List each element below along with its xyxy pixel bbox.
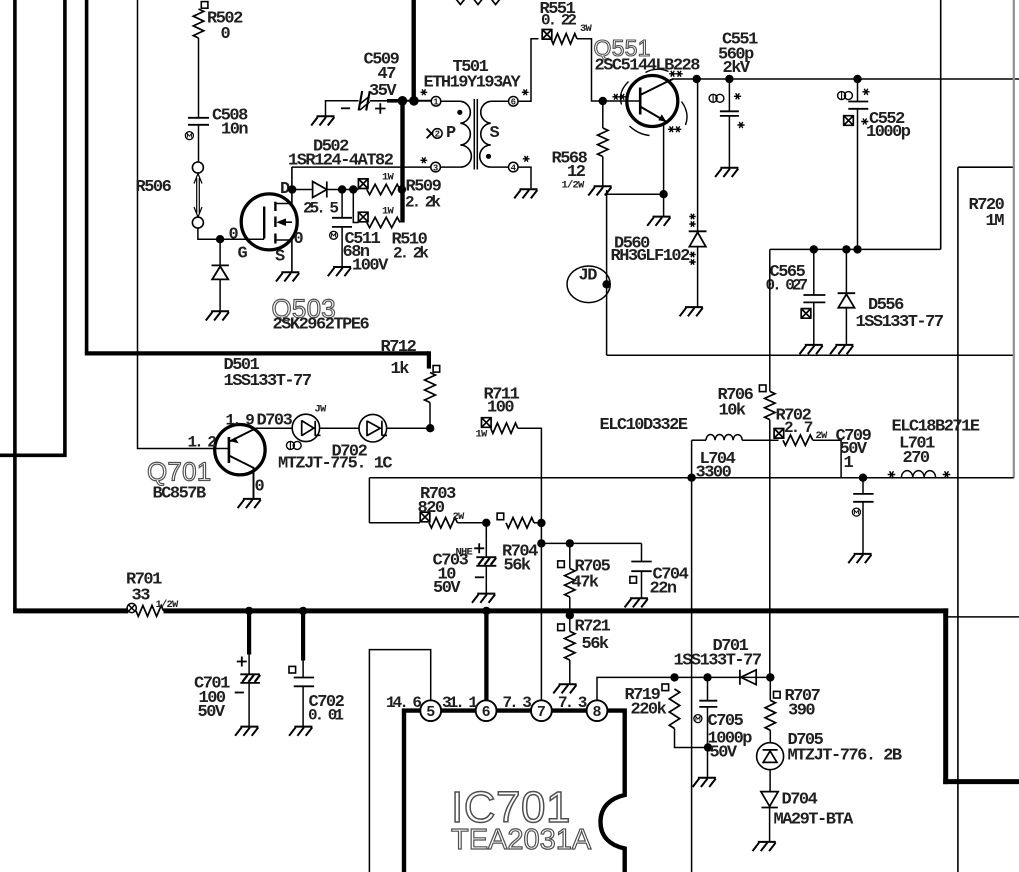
wire pin8 up (597, 677, 675, 700)
diode D560 branch (697, 79, 699, 231)
svg-text:7: 7 (537, 704, 546, 721)
resistor R551 fusible mark (542, 30, 552, 40)
wire pin6 thick drop (484, 611, 488, 700)
resistor R703 (429, 518, 457, 528)
svg-text:10n: 10n (221, 121, 248, 140)
ground D556 (830, 345, 853, 354)
svg-text:0. 027: 0. 027 (766, 277, 808, 295)
svg-text:100: 100 (487, 399, 514, 418)
polarity mark C511 (330, 231, 338, 239)
transistor Q551 body circle (627, 76, 678, 127)
IC701 pin 8 (587, 700, 608, 721)
svg-text:0: 0 (294, 230, 304, 249)
resistor R702 fusible mark (774, 429, 784, 439)
wire T501 pin4 to ground (518, 167, 531, 188)
svg-text:R506: R506 (136, 178, 172, 197)
svg-text:50V: 50V (198, 703, 226, 722)
loop JD (567, 266, 610, 303)
svg-text:3300: 3300 (696, 464, 732, 483)
wire rail upper (thick) (85, 351, 429, 355)
wire C509 positive (thick) to T501 pin1 (370, 100, 387, 102)
transformer T501 pin 2 (427, 129, 436, 139)
capacitor C702 (301, 611, 305, 661)
svg-text:D703: D703 (257, 412, 293, 431)
wire emitter node to R568 ground node (605, 193, 664, 195)
svg-text:5: 5 (426, 704, 435, 721)
IC701 pin 5 (420, 700, 441, 721)
svg-text:MA29T-BTA: MA29T-BTA (774, 811, 855, 830)
ground gate diode (206, 311, 229, 320)
svg-text:33: 33 (132, 587, 151, 606)
resistor R701 mark (127, 603, 136, 612)
wire D701 row (675, 676, 771, 678)
wire Q551 emitter down (663, 123, 665, 217)
svg-text:0: 0 (221, 25, 231, 44)
svg-text:MTZJT-775. 1C: MTZJT-775. 1C (278, 455, 392, 474)
svg-text:1. 9: 1. 9 (226, 412, 255, 430)
terminal square R706 (759, 385, 766, 392)
transistor Q551 emitter (640, 107, 666, 122)
wire snubber row horizontal (770, 248, 941, 250)
svg-text:50V: 50V (710, 744, 738, 763)
ground D560 (680, 307, 703, 316)
node L704/feedback (687, 474, 695, 482)
transformer T501 pin 6 (509, 97, 519, 107)
svg-text:35V: 35V (369, 82, 397, 101)
diode D701 (740, 670, 756, 685)
resistor R706 (765, 391, 775, 419)
resistor R711 (491, 423, 518, 433)
svg-text:0: 0 (229, 226, 239, 245)
svg-text:1. 2: 1. 2 (188, 434, 217, 452)
svg-text:ETH19Y193AY: ETH19Y193AY (424, 74, 522, 93)
terminal square R704 (497, 513, 504, 520)
svg-text:6: 6 (511, 98, 516, 108)
resistor R510 (367, 217, 400, 227)
transformer T501 primary winding (440, 101, 460, 167)
transistor Q503 body circle (241, 194, 297, 250)
transistor Q503 drain lead (275, 167, 292, 204)
wire left bus 2 (thick vertical with corner to left edge) (0, 0, 65, 455)
resistor R502 (193, 9, 203, 38)
resistor R551 (551, 34, 577, 44)
svg-text:0: 0 (255, 478, 265, 497)
svg-text:R721: R721 (575, 618, 611, 637)
resistor R502 top terminal (open square) (201, 2, 208, 9)
svg-text:56k: 56k (504, 557, 531, 576)
svg-text:56k: 56k (582, 635, 609, 654)
IC701 pin 7 (531, 700, 552, 721)
node R705/R721 (566, 611, 574, 619)
transistor Q503 gate bar (263, 207, 265, 239)
svg-text:2. 7: 2. 7 (784, 419, 813, 437)
transistor Q701 base bar (228, 437, 231, 463)
node R705 top (566, 539, 574, 547)
transistor Q503 source lead (275, 240, 292, 272)
terminal square R712 (433, 366, 440, 373)
svg-text:390: 390 (788, 702, 815, 721)
node R703/C703/R704 (482, 519, 490, 527)
svg-text:1: 1 (844, 454, 854, 473)
svg-text:1W: 1W (382, 172, 395, 184)
capacitor C703 (electrolytic) (485, 523, 487, 557)
svg-text:1M: 1M (986, 212, 1005, 231)
wire from top edge right (940, 0, 942, 249)
transformer T501 core (473, 99, 475, 170)
resistor R510 fusible mark (358, 212, 368, 222)
svg-text:10k: 10k (719, 402, 746, 421)
wire R702 to C709 node (813, 440, 841, 478)
svg-text:2: 2 (435, 130, 440, 140)
ground C701 (235, 727, 258, 736)
wire spark gap to gate node (198, 228, 264, 239)
wire main rail bottom to right edge (943, 779, 1019, 784)
svg-text:JW: JW (315, 404, 328, 416)
ground C511 (328, 267, 351, 276)
wire C509 negative to ground (326, 101, 359, 116)
capacitor C704 (641, 543, 643, 561)
ground D704 (753, 842, 776, 851)
svg-text:P: P (446, 124, 456, 143)
svg-text:0. 22: 0. 22 (541, 12, 576, 30)
inductor L704 (706, 435, 742, 441)
wire thick feed from top (412, 0, 416, 101)
svg-text:8: 8 (592, 704, 601, 721)
svg-text:1SR124-4AT82: 1SR124-4AT82 (288, 152, 394, 171)
wire thick drop to R509/R510 (400, 101, 404, 223)
asterisk marks T501 (420, 89, 427, 95)
wire D705 to D704 (769, 770, 771, 792)
ground Q503 source (276, 272, 299, 281)
resistor R705 (569, 543, 571, 568)
svg-text:0. 01: 0. 01 (308, 707, 343, 725)
svg-text:1SS133T-77: 1SS133T-77 (856, 313, 944, 332)
transformer T501 secondary winding (491, 101, 509, 167)
asterisk marks Q551 (669, 71, 676, 77)
node C709 (859, 474, 867, 482)
node JD (602, 280, 610, 288)
transistor Q701 collector (229, 456, 254, 499)
wire D702 to node (387, 427, 431, 429)
svg-text:25. 5: 25. 5 (303, 200, 338, 218)
svg-text:820: 820 (418, 499, 445, 518)
terminal square R705 (558, 561, 565, 568)
wire D704 to ground (769, 808, 771, 842)
wire R705/C704 branch (541, 542, 641, 544)
node emitter junction (659, 190, 667, 198)
diode D556 (845, 249, 847, 293)
svg-text:RH3GLF102: RH3GLF102 (611, 247, 691, 266)
ground C509 (311, 116, 334, 125)
svg-text:TEA2031A: TEA2031A (451, 824, 592, 856)
wire rail upper corner down (427, 351, 431, 368)
wire emitter to D703 (256, 427, 292, 429)
transistor Q503 body-diode arrow (279, 221, 292, 223)
svg-text:1: 1 (433, 98, 439, 108)
capacitor C565 (813, 249, 815, 295)
svg-text:270: 270 (903, 449, 930, 468)
resistor R706 vertical line (769, 249, 771, 391)
node rail junctions (245, 607, 253, 615)
svg-text:47k: 47k (572, 574, 599, 593)
ground Q701 collector (238, 499, 261, 508)
marks C551 (709, 94, 717, 102)
svg-text:31. 1: 31. 1 (442, 694, 477, 712)
svg-text:1W: 1W (382, 206, 395, 218)
diode D705 (circled) (757, 743, 784, 770)
svg-text:ELC10D332E: ELC10D332E (600, 416, 688, 435)
wire collector rail (672, 78, 1019, 80)
svg-text:14. 6: 14. 6 (386, 694, 421, 712)
node D502 cathode junctions (338, 185, 346, 193)
wire left bus 3 (thick vertical joining rail) (85, 0, 89, 353)
svg-text:3W: 3W (580, 23, 593, 35)
capacitor C701 (electrolytic) (247, 611, 251, 655)
svg-text:1SS133T-77: 1SS133T-77 (674, 652, 762, 671)
phase dots T501 (457, 110, 462, 115)
inductor L701 (888, 471, 896, 477)
resistor R509 fusible mark (358, 179, 368, 189)
resistor R701 (136, 606, 164, 617)
terminal square R721 (558, 624, 565, 631)
resistor R719 (669, 689, 679, 729)
svg-text:22n: 22n (650, 580, 677, 599)
terminal square R719 (662, 684, 669, 691)
wire left bus 1 (thick vertical) (13, 0, 17, 611)
transistor Q701 emitter with arrow (230, 428, 256, 441)
node R705 branch (537, 539, 545, 547)
node collector junctions (693, 75, 701, 83)
resistor R509 (367, 184, 400, 194)
node Q503 drain (288, 185, 296, 193)
svg-text:7. 3: 7. 3 (503, 694, 532, 712)
node gate junction (216, 235, 224, 243)
svg-text:220k: 220k (631, 701, 667, 720)
capacitor C509 (polarized) (359, 91, 370, 111)
wire T501 pin3 to drain (292, 166, 431, 168)
wire thin rail mid (607, 354, 1014, 356)
svg-text:1SS133T-77: 1SS133T-77 (224, 372, 312, 391)
IC701 body outline (404, 711, 625, 872)
resistor cut at top edge (456, 0, 500, 5)
wire R502 to C508 (198, 38, 200, 118)
svg-text:2W: 2W (453, 511, 466, 523)
node D701 cathode (766, 673, 774, 681)
svg-text:C705: C705 (708, 712, 744, 731)
wire JD vertical (606, 190, 608, 355)
ground Q551 emitter (647, 217, 670, 226)
wire right stub mid (946, 616, 1019, 618)
wire gray right border (1013, 0, 1015, 478)
diode D703 (circled) (292, 414, 319, 441)
wire feedback box top (369, 477, 1013, 479)
transistor Q701 body circle (215, 425, 265, 475)
svg-text:1k: 1k (391, 360, 410, 379)
ground R568 (588, 186, 611, 195)
svg-text:3: 3 (433, 163, 438, 173)
ground T501 pin4 (514, 189, 537, 198)
node R704 top (537, 519, 545, 527)
node R719 top (670, 673, 678, 681)
wire main rail (thick) right (164, 608, 949, 613)
wire R551 to Q551 base (577, 39, 640, 101)
wire R711 to pin7 drop (518, 428, 542, 700)
resistor R703 fusible mark (420, 512, 430, 522)
svg-text:S: S (490, 124, 500, 143)
svg-text:1000p: 1000p (866, 123, 911, 142)
svg-text:100V: 100V (352, 257, 389, 276)
svg-text:2kV: 2kV (723, 59, 751, 78)
capacitor C705 (707, 677, 709, 700)
arc marks Q551 (620, 69, 687, 135)
diode D704 (761, 792, 778, 808)
svg-text:2. 2k: 2. 2k (405, 194, 441, 212)
wire thin vertical to Q701 base (138, 0, 229, 449)
resistor R568 (602, 101, 604, 128)
polarity mark C508 (185, 132, 193, 140)
svg-text:BC857B: BC857B (153, 485, 207, 504)
transistor Q503 channel segments (274, 202, 276, 211)
wire pin5 loop (369, 650, 430, 872)
wire D703 to D702 (320, 427, 359, 429)
node R509 right end (398, 185, 406, 193)
diode D702 (circled) (359, 414, 387, 442)
resistor R711 fusible mark (482, 418, 492, 428)
svg-text:50V: 50V (433, 579, 461, 598)
wire main rail corner down (943, 608, 948, 784)
diode D502 (313, 182, 327, 198)
svg-text:G: G (238, 245, 248, 264)
marks C552 (838, 92, 846, 100)
ground C704 (625, 598, 648, 607)
svg-text:D704: D704 (782, 791, 818, 810)
svg-text:2. 2k: 2. 2k (393, 245, 429, 263)
node D702/R712/R711 (426, 424, 434, 432)
capacitor C709 (862, 478, 864, 494)
ground C565 (800, 345, 823, 354)
resistor R721 (569, 615, 571, 631)
svg-text:2SC5144LB228: 2SC5144LB228 (595, 57, 701, 76)
node snubber junctions (810, 245, 818, 253)
node Q551 base (599, 97, 607, 105)
surge arrester R506 (192, 162, 203, 173)
svg-text:JD: JD (579, 267, 598, 286)
ground C709 (848, 554, 871, 563)
wire C508 to spark gap (198, 125, 200, 162)
node C705 top (703, 673, 711, 681)
node C509/pin1 junctions (398, 96, 408, 106)
ground C702 (289, 727, 312, 736)
resistor R707 (769, 677, 771, 700)
resistor R702 (783, 435, 813, 445)
ground C705 (693, 778, 716, 787)
ground C703 (472, 594, 495, 603)
svg-text:Q701: Q701 (147, 457, 211, 487)
capacitor C511 (341, 190, 343, 218)
wire R720 top (958, 166, 1014, 168)
wire to R510 (353, 190, 358, 223)
transistor Q551 base bar (639, 88, 642, 115)
svg-text:4: 4 (511, 163, 517, 173)
capacitor C552 (857, 79, 859, 102)
svg-text:2SK2962TPE6: 2SK2962TPE6 (273, 316, 370, 335)
svg-text:1W: 1W (476, 429, 489, 441)
wire R720 vertical (957, 167, 959, 872)
svg-text:1/2W: 1/2W (562, 180, 586, 192)
svg-text:R712: R712 (381, 338, 417, 357)
svg-text:6: 6 (482, 704, 491, 721)
wire box bottom to R703 (369, 522, 420, 524)
wire feedback box left (368, 478, 370, 523)
ground C551 (715, 168, 738, 177)
svg-text:7. 3: 7. 3 (558, 694, 587, 712)
resistor R704 (506, 518, 534, 528)
transformer T501 pin 1 (431, 97, 441, 107)
gate protection diode (219, 239, 221, 265)
resistor R712 (425, 373, 436, 403)
node C705 bottom (704, 743, 712, 751)
svg-text:S: S (275, 248, 285, 267)
IC701 pin 6 (476, 700, 497, 721)
wire main rail (thick) (13, 608, 128, 613)
transformer T501 pin 3 (431, 162, 441, 172)
terminal square R707 (774, 691, 781, 698)
ground R721 (553, 684, 576, 693)
transistor Q551 collector (640, 79, 673, 95)
capacitor C551 (728, 79, 730, 111)
capacitor C508 (188, 117, 209, 119)
wire L704 branch vertical (691, 440, 693, 872)
transformer T501 pin 4 (509, 162, 519, 172)
wire pin6 up to R551 (518, 39, 538, 102)
svg-text:MTZJT-776. 2B: MTZJT-776. 2B (788, 747, 902, 766)
